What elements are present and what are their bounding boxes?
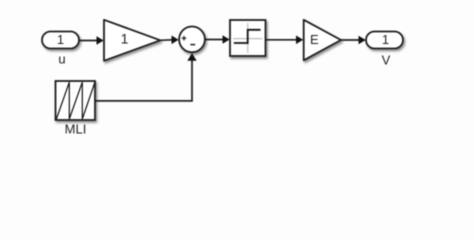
wire gainE to outport <box>341 39 360 41</box>
wire gain1 to sum <box>160 39 172 42</box>
svg-text:E: E <box>310 32 319 47</box>
arrowhead into relay <box>223 35 230 44</box>
wire inport to gain1 <box>80 40 98 42</box>
svg-text:1: 1 <box>57 32 64 47</box>
arrowhead up into sum <box>187 53 196 61</box>
sum minus sign <box>190 44 195 46</box>
sum plus sign <box>182 36 187 41</box>
outport block V (stadium) <box>366 32 403 49</box>
inport block u (stadium) <box>42 32 79 49</box>
MLI sawtooth icon <box>56 82 95 119</box>
relay block (square) <box>230 20 266 56</box>
arrowhead into sum <box>172 36 179 45</box>
relay axes (gray crosshair) <box>233 23 263 53</box>
svg-text:V: V <box>382 53 391 68</box>
arrowhead into gainE <box>296 36 303 45</box>
arrowhead into outport <box>359 36 366 45</box>
MLI repeating sequence block (square) <box>56 81 96 120</box>
svg-text:1: 1 <box>382 32 389 47</box>
wire MLI to sum (right then up) <box>96 60 193 101</box>
svg-text:u: u <box>58 52 65 67</box>
svg-text:MLI: MLI <box>65 122 87 137</box>
arrowhead into gain1 <box>97 36 104 45</box>
gain block E (triangle) <box>304 20 341 61</box>
wire sum to relay <box>205 39 224 41</box>
sum block circle <box>179 27 205 53</box>
svg-text:1: 1 <box>121 31 129 47</box>
relay step icon <box>234 30 261 43</box>
gain block 1 (triangle) <box>104 20 160 61</box>
wire relay to gainE <box>266 39 297 41</box>
